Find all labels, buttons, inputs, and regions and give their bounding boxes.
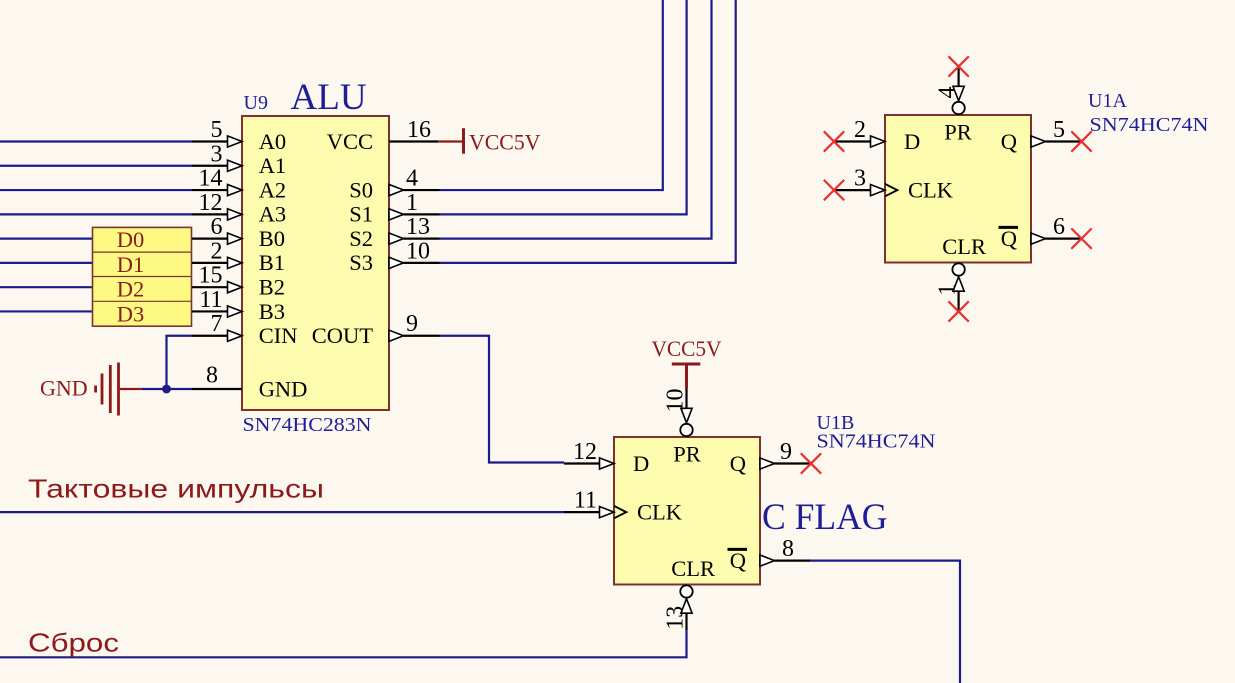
- svg-text:COUT: COUT: [312, 323, 374, 348]
- svg-text:Q: Q: [730, 451, 746, 476]
- svg-text:U1A: U1A: [1088, 90, 1127, 112]
- U1B pin 10 (PR) stub: [680, 424, 692, 436]
- svg-text:A2: A2: [259, 177, 287, 202]
- flip-flop U1B body: [614, 437, 760, 585]
- ALU pin 8 (GND) stub: [192, 388, 242, 390]
- svg-text:B1: B1: [259, 250, 285, 275]
- ALU pin 12 (A3) stub: [192, 213, 229, 215]
- no-connect X U1A pin 2: [824, 131, 844, 151]
- wire junction up to CIN: [167, 336, 193, 389]
- U1A pin 3 stub: [835, 189, 872, 191]
- no-connect X U1A pin 4: [948, 56, 968, 76]
- svg-text:Q: Q: [1001, 226, 1017, 251]
- svg-text:8: 8: [206, 363, 218, 389]
- svg-text:4: 4: [406, 166, 418, 192]
- ALU pin 11 (B3) stub: [192, 310, 229, 312]
- ALU pin 16 (VCC) stub: [389, 140, 438, 142]
- bus box divider 1: [93, 251, 192, 253]
- wire A3 net: [0, 213, 192, 215]
- wire COUT to U1B D: [440, 336, 565, 463]
- svg-text:1: 1: [935, 284, 961, 296]
- ALU pin 14 (A2) stub: [192, 189, 229, 191]
- svg-text:5: 5: [211, 117, 223, 143]
- svg-text:D0: D0: [117, 227, 145, 252]
- svg-text:4: 4: [935, 87, 961, 99]
- U1A clock chevron: [885, 184, 897, 196]
- svg-text:D: D: [904, 129, 920, 154]
- svg-text:Тактовые импульсы: Тактовые импульсы: [28, 474, 324, 504]
- wire B0 net: [0, 238, 192, 240]
- ALU pin 15 (B2) stub: [192, 286, 229, 288]
- ALU pin 13 (S2) stub: [389, 233, 404, 244]
- svg-text:D: D: [633, 451, 649, 476]
- svg-text:8: 8: [782, 536, 794, 562]
- U1A pin 2 stub: [835, 140, 872, 142]
- svg-text:D2: D2: [117, 277, 145, 302]
- svg-text:A1: A1: [259, 153, 287, 178]
- svg-text:CIN: CIN: [259, 323, 298, 348]
- U1A pin 5 stub: [1031, 136, 1046, 147]
- svg-text:VCC5V: VCC5V: [652, 336, 722, 361]
- svg-text:SN74HC74N: SN74HC74N: [817, 431, 936, 453]
- svg-text:12: 12: [199, 190, 223, 216]
- power symbol VCC5V at U1B: [685, 364, 688, 389]
- ALU pin 3 (A1) stub: [192, 165, 229, 167]
- svg-text:B0: B0: [259, 226, 285, 251]
- U1A pin 4 (PR) stub: [952, 102, 964, 114]
- svg-text:PR: PR: [673, 442, 701, 467]
- U1B clock chevron: [614, 506, 626, 518]
- svg-text:D3: D3: [117, 301, 145, 326]
- svg-text:Q: Q: [1001, 129, 1017, 154]
- no-connect X U1A pin 5: [1071, 131, 1091, 151]
- svg-text:SN74HC74N: SN74HC74N: [1090, 114, 1209, 136]
- wire ground to junction: [119, 388, 142, 390]
- no-connect X U1A pin 1: [948, 301, 968, 321]
- wire S1 net: [440, 0, 687, 214]
- no-connect X U1A pin 6: [1071, 228, 1091, 248]
- svg-text:S1: S1: [349, 202, 373, 227]
- svg-text:15: 15: [199, 263, 223, 289]
- svg-text:SN74HC283N: SN74HC283N: [243, 414, 372, 436]
- wire S0 net: [440, 0, 663, 190]
- svg-text:13: 13: [663, 606, 689, 630]
- svg-text:10: 10: [663, 389, 689, 413]
- svg-text:3: 3: [211, 141, 223, 167]
- junction dot: [162, 385, 171, 394]
- svg-text:B2: B2: [259, 274, 285, 299]
- svg-text:3: 3: [854, 166, 866, 192]
- flip-flop U1A body: [885, 115, 1031, 263]
- ALU pin 2 (B1) stub: [192, 262, 229, 264]
- svg-text:16: 16: [407, 117, 431, 143]
- svg-text:13: 13: [406, 214, 430, 240]
- ALU pin 10 (S3) stub: [389, 257, 404, 268]
- svg-text:U9: U9: [244, 92, 268, 114]
- svg-text:A3: A3: [259, 202, 287, 227]
- svg-text:2: 2: [854, 117, 866, 143]
- svg-text:ALU: ALU: [291, 77, 367, 118]
- U1B pin 12 stub: [564, 462, 601, 464]
- bus box divider 2: [93, 276, 192, 278]
- ground symbol: [96, 363, 119, 416]
- svg-text:7: 7: [211, 311, 223, 337]
- svg-text:6: 6: [211, 214, 223, 240]
- U1A pin 1 (CLR) stub: [952, 263, 964, 275]
- svg-text:Q: Q: [730, 548, 746, 573]
- svg-text:CLR: CLR: [942, 234, 986, 259]
- svg-text:6: 6: [1053, 214, 1065, 240]
- bus label box D0-D3: [93, 227, 192, 326]
- svg-text:CLR: CLR: [671, 556, 715, 581]
- svg-text:5: 5: [1053, 117, 1065, 143]
- svg-text:CLK: CLK: [637, 499, 683, 524]
- U1B pin 11 stub: [564, 511, 601, 513]
- svg-text:2: 2: [211, 238, 223, 264]
- power symbol VCC5V at ALU: [462, 128, 465, 154]
- svg-text:S2: S2: [349, 226, 373, 251]
- U1B pin 13 (CLR) stub: [680, 585, 692, 597]
- svg-text:B3: B3: [259, 299, 285, 324]
- svg-text:S3: S3: [349, 250, 373, 275]
- wire B3 net: [0, 310, 192, 312]
- ALU pin 6 (B0) stub: [192, 238, 229, 240]
- ALU pin 1 (S1) stub: [389, 209, 404, 220]
- svg-text:11: 11: [199, 287, 222, 313]
- ALU pin 9 (COUT) stub: [389, 330, 404, 341]
- wire S3 net: [440, 0, 736, 263]
- wire B2 net: [0, 286, 192, 288]
- svg-text:14: 14: [199, 166, 223, 192]
- svg-text:CLK: CLK: [908, 177, 954, 202]
- svg-text:VCC: VCC: [327, 129, 373, 154]
- svg-text:1: 1: [406, 190, 418, 216]
- no-connect X U1B pin 9: [801, 453, 821, 473]
- svg-text:11: 11: [574, 488, 597, 514]
- wire U1B Qbar to bottom edge: [810, 561, 960, 683]
- svg-text:C FLAG: C FLAG: [762, 497, 888, 538]
- U1B pin 9 stub: [760, 458, 775, 469]
- svg-text:PR: PR: [944, 120, 972, 145]
- svg-text:12: 12: [573, 439, 597, 465]
- wire A1 net: [0, 165, 192, 167]
- U1A pin 6 stub: [1031, 233, 1046, 244]
- ALU pin 4 (S0) stub: [389, 184, 404, 195]
- svg-text:Сброс: Сброс: [28, 628, 119, 658]
- wire S2 net: [440, 0, 712, 239]
- ALU pin 7 (CIN) stub: [192, 335, 229, 337]
- svg-text:9: 9: [780, 439, 792, 465]
- wire reset net: [0, 630, 687, 657]
- wire A0 net: [0, 140, 192, 142]
- ALU pin 5 (A0) stub: [192, 140, 229, 142]
- ALU chip U9 body: [242, 116, 389, 410]
- wire VCC5V net segment: [438, 140, 463, 142]
- svg-text:9: 9: [406, 311, 418, 337]
- svg-text:GND: GND: [259, 376, 308, 401]
- bus box divider 3: [93, 300, 192, 302]
- svg-text:D1: D1: [117, 252, 145, 277]
- svg-text:10: 10: [406, 238, 430, 264]
- no-connect X U1A pin 3: [824, 180, 844, 200]
- wire B1 net: [0, 262, 192, 264]
- svg-text:VCC5V: VCC5V: [469, 130, 541, 155]
- svg-text:GND: GND: [40, 376, 88, 401]
- svg-text:S0: S0: [349, 177, 373, 202]
- U1B pin 8 stub: [760, 555, 775, 566]
- wire A2 net: [0, 189, 192, 191]
- svg-text:A0: A0: [259, 129, 287, 154]
- wire clock net: [0, 511, 564, 513]
